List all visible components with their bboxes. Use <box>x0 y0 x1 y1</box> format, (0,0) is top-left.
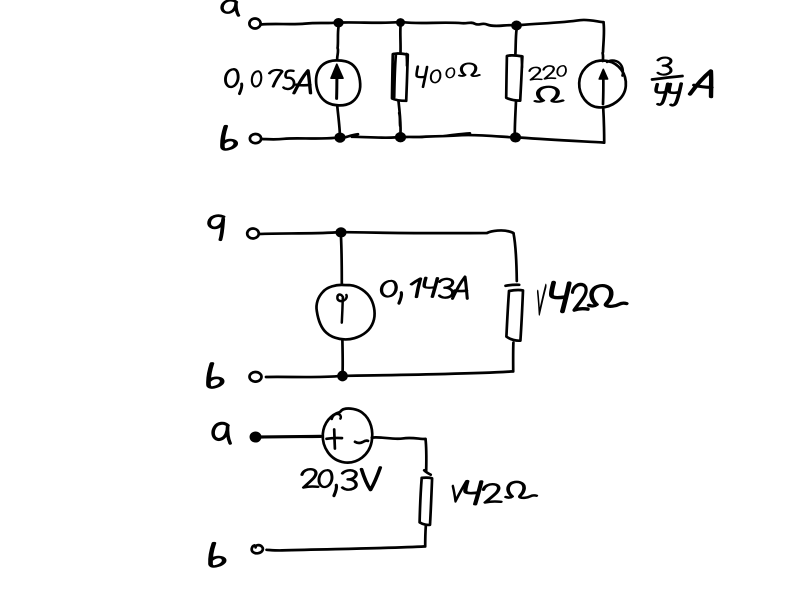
wire terminal a to VS <box>261 435 321 439</box>
resistor R4 <box>420 470 433 525</box>
wire right corner down to CS2 <box>603 22 604 61</box>
current source CS3 blob <box>316 285 374 339</box>
bottom wire CS1 junction to terminal b <box>262 138 336 140</box>
wire R1 bottom to junction <box>399 101 401 132</box>
node a label bottom <box>213 423 230 443</box>
current source CS1 circle <box>316 60 360 105</box>
bottom wire R1 to CS1 junction <box>346 134 396 138</box>
node a label middle <box>209 216 223 240</box>
label 142 ohm bottom <box>453 481 536 504</box>
junction bottom of CS1 <box>335 133 345 142</box>
wire R4 bottom to bottom right corner <box>424 526 427 546</box>
wire junction1 to junction2 <box>343 21 396 24</box>
voltage source VS circle <box>323 409 373 463</box>
wire R3 bottom to bottom right corner <box>512 343 515 372</box>
node b label top <box>222 126 235 149</box>
wire VS to top right corner <box>372 437 426 439</box>
label 0,143A <box>382 277 468 303</box>
wire top right corner down to R3 <box>514 233 517 281</box>
junction top of CS3 <box>336 228 346 237</box>
CS1 arrowhead <box>331 64 343 78</box>
label 3/44 A fraction <box>656 58 714 106</box>
junction bottom of R2 <box>511 133 521 142</box>
terminal b bottom <box>252 545 263 553</box>
wire R2 bottom to junction <box>515 101 516 132</box>
junction top of R1 <box>397 19 405 26</box>
wire CS2 bottom to bottom wire <box>603 108 604 143</box>
wire junction1 down to CS1 <box>337 27 338 59</box>
wire junction to top right corner <box>346 230 514 233</box>
node a label top <box>222 0 238 15</box>
wire terminal a to junction <box>259 232 336 234</box>
wire CS1 bottom to junction <box>337 105 340 133</box>
wire CS3 bottom to junction <box>341 341 344 372</box>
terminal a top <box>249 19 260 29</box>
wire junction to terminal b middle <box>266 375 338 379</box>
label 220 ohm <box>530 66 567 102</box>
node b label bottom <box>210 543 224 566</box>
fraction bar <box>652 76 683 80</box>
terminal a bottom filled <box>250 432 260 442</box>
CS3 inner arrow P <box>337 294 346 322</box>
bottom wire right corner to junction R2 <box>521 138 604 143</box>
bottom wire right corner to junction <box>348 371 514 375</box>
wire top a to junction1 <box>261 23 334 25</box>
CS2 arrowhead <box>599 69 607 79</box>
junction top of R2 <box>512 21 521 29</box>
CS2 arrow shaft <box>602 74 605 104</box>
resistor R3 <box>506 285 524 341</box>
CS1 arrow shaft <box>335 74 338 98</box>
CS2 top-right overshoot stroke <box>607 60 623 75</box>
terminal a middle <box>247 229 259 239</box>
wire junction2 down to R1 <box>399 27 402 53</box>
label 20,3 V <box>302 468 380 496</box>
node b label middle <box>208 363 222 387</box>
junction bottom of CS3 <box>338 371 347 380</box>
terminal b middle <box>250 372 262 382</box>
VS plus sign <box>327 430 343 449</box>
resistor R2 body <box>506 55 522 100</box>
terminal b top circuit <box>250 134 261 143</box>
wire junction2 to junction3 with scribble <box>404 22 511 26</box>
wire junction down to CS3 <box>340 237 343 283</box>
resistor R1 body <box>392 53 408 100</box>
wire junction3 to top right corner <box>521 20 604 25</box>
label 0,075A <box>225 69 310 93</box>
wire junction3 down to R2 <box>515 30 516 54</box>
junction bottom of R1 <box>396 133 406 142</box>
bottom wire to terminal b bottom <box>267 546 426 550</box>
junction top of CS1 <box>334 19 343 27</box>
label 400ohm <box>417 63 480 86</box>
label 142 ohm middle <box>538 283 627 314</box>
VS minus sign <box>355 441 368 443</box>
wire corner down to R4 <box>424 439 428 471</box>
current source CS2 circle <box>579 61 626 108</box>
VS top overshoot loop <box>332 414 341 419</box>
bottom wire R2 to R1 with retrace dash <box>406 133 510 137</box>
